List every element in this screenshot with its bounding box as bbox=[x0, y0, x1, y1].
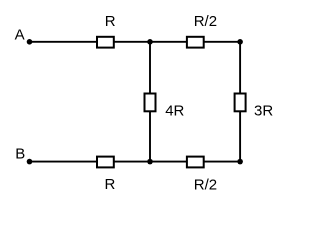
node B terminal dot bbox=[27, 159, 33, 165]
junction bottom right bbox=[237, 159, 243, 165]
svg-text:R/2: R/2 bbox=[194, 13, 217, 30]
junction top middle bbox=[147, 39, 153, 45]
junction bottom middle bbox=[147, 159, 153, 165]
svg-text:R: R bbox=[105, 13, 116, 30]
svg-text:A: A bbox=[15, 26, 25, 43]
junction top right bbox=[237, 39, 243, 45]
resistor 4R body bbox=[145, 94, 156, 112]
svg-text:4R: 4R bbox=[165, 102, 184, 119]
svg-text:3R: 3R bbox=[254, 103, 273, 120]
svg-text:B: B bbox=[15, 146, 25, 163]
wire top A to right node bbox=[30, 41, 241, 43]
node A terminal dot bbox=[27, 39, 33, 45]
svg-text:R/2: R/2 bbox=[194, 176, 217, 193]
resistor R/2 bottom-right body bbox=[187, 157, 204, 168]
resistor R/2 top-right body bbox=[187, 37, 204, 48]
wire middle vertical bbox=[149, 42, 151, 162]
resistor R bottom-left body bbox=[97, 157, 114, 168]
resistor R top-left body bbox=[97, 37, 114, 48]
wire right vertical bbox=[239, 42, 241, 162]
resistor 3R body bbox=[235, 94, 246, 112]
svg-text:R: R bbox=[105, 176, 116, 193]
wire bottom B to right node bbox=[30, 161, 241, 163]
